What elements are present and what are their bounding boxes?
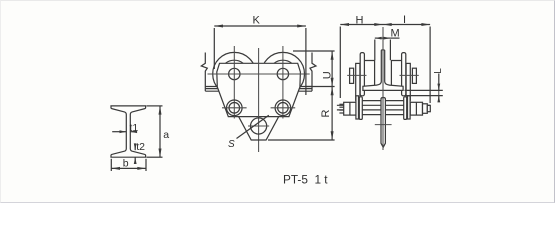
svg-text:PT-5 1 t: PT-5 1 t — [283, 173, 328, 187]
svg-text:K: K — [253, 15, 261, 27]
svg-text:t1: t1 — [130, 122, 139, 134]
svg-text:H: H — [356, 15, 364, 27]
svg-text:R: R — [320, 110, 332, 118]
svg-text:b: b — [123, 157, 129, 169]
svg-text:I: I — [403, 14, 406, 26]
svg-text:t2: t2 — [136, 141, 145, 153]
svg-text:L: L — [433, 68, 444, 74]
svg-text:M: M — [391, 28, 400, 40]
svg-text:S: S — [228, 139, 235, 150]
svg-text:U: U — [322, 71, 334, 79]
svg-text:a: a — [163, 129, 169, 141]
